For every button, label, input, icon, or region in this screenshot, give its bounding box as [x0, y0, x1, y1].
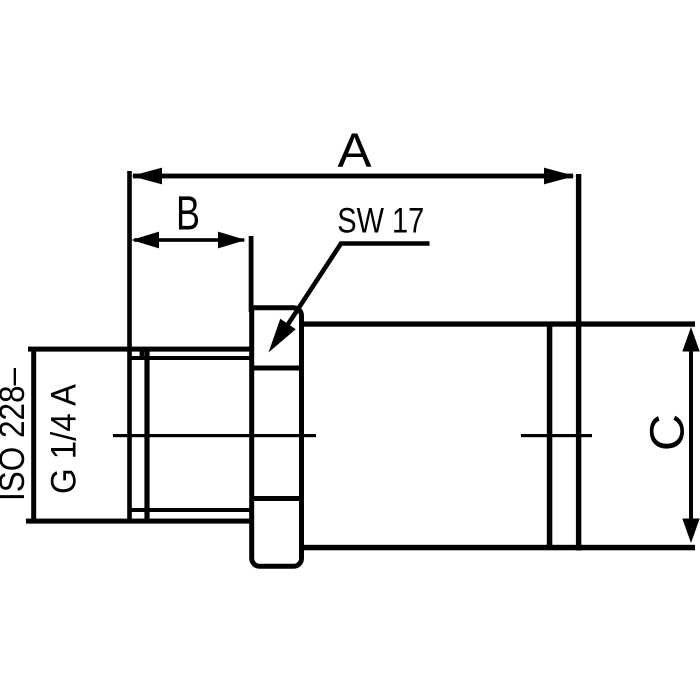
hex facet line upper	[253, 366, 300, 371]
arrowhead C top	[682, 327, 699, 352]
thread root bottom line	[128, 508, 252, 512]
svg-text:G 1/4 A: G 1/4 A	[45, 383, 84, 494]
svg-text:A: A	[338, 125, 372, 178]
thread root top line	[131, 356, 252, 360]
thread chamfer mark top	[140, 349, 145, 359]
leader line SW 17	[279, 244, 430, 339]
dimension line C	[689, 335, 693, 535]
centerline segment left	[113, 434, 316, 437]
body groove line (x=550)	[547, 324, 553, 545]
thread crest bottom line	[26, 519, 253, 524]
thread crest top line	[28, 347, 253, 352]
centerline segment right	[521, 434, 592, 437]
arrowhead A right	[544, 168, 575, 185]
svg-text:SW 17: SW 17	[337, 202, 424, 241]
extension line for B right / hex left upper stub	[249, 236, 254, 312]
thread designation bracket vertical	[31, 347, 36, 523]
arrowhead A left	[131, 168, 162, 185]
leader arrowhead	[269, 319, 296, 353]
svg-text:C: C	[642, 414, 695, 452]
hex facet line lower	[253, 496, 300, 501]
arrowhead B left	[132, 232, 160, 249]
dimension line A	[133, 174, 573, 179]
arrowhead B right	[218, 232, 246, 249]
extension line right (x=578.5), also body right edge	[576, 174, 581, 551]
thread end face vertical	[144, 351, 149, 519]
body top line	[302, 321, 695, 326]
body bottom line	[302, 545, 695, 551]
svg-text:B: B	[176, 188, 200, 241]
extension line left (x=129.5)	[127, 171, 132, 523]
dimension line B	[134, 238, 244, 242]
hex nut outline	[252, 308, 302, 567]
svg-text:ISO 228–: ISO 228–	[0, 368, 32, 501]
arrowhead C bottom	[682, 519, 699, 544]
